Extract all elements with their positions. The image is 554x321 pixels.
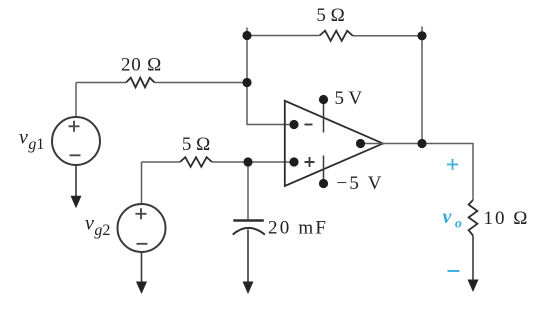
wire: vg1 top lead: [75, 83, 77, 118]
wire: feedback top left segment: [247, 35, 320, 37]
node: plus-input / capacitor junction: [243, 157, 252, 166]
wire: op-amp output: [361, 144, 474, 201]
vg1 plus sign: [69, 121, 80, 132]
op-amp +5V supply pin line: [323, 101, 325, 133]
wire: 5 ohm (lower) right segment to plus input: [212, 161, 294, 163]
ground arrow below vg1: [71, 196, 82, 208]
pin dot: noninverting input: [289, 157, 298, 166]
svg-text:−5 V: −5 V: [337, 173, 384, 194]
pin dot: op-amp output: [356, 139, 365, 148]
vo minus polarity mark (cyan): [448, 270, 460, 272]
source vg2 circle: [118, 204, 166, 252]
wire: capacitor top lead: [247, 162, 249, 220]
wire: 10 ohm bottom lead: [472, 236, 474, 282]
wire: capacitor bottom lead: [247, 230, 249, 284]
resistor 5 ohm (lower) zigzag: [180, 157, 212, 167]
resistor R_f 5ohm zigzag: [320, 31, 353, 41]
vg1 minus sign: [70, 154, 81, 156]
wire: vg1 bottom lead: [75, 165, 77, 197]
wire: feedback top right segment: [353, 35, 422, 37]
pin dot: inverting input: [289, 120, 298, 129]
wire: right vertical feedback: [421, 27, 423, 144]
wire: vg2 top lead: [141, 162, 143, 204]
ground arrow below capacitor: [243, 282, 254, 295]
op-amp U1 triangle: [285, 101, 383, 186]
node: 20 ohm / inverting column junction: [242, 78, 251, 87]
resistor 10 ohm vertical zigzag: [469, 200, 478, 236]
capacitor C 20mF bottom curved plate: [233, 228, 265, 235]
svg-text:vg1: vg1: [19, 127, 44, 154]
resistor 20 ohm zigzag: [126, 78, 155, 88]
op-amp plus sign (noninverting input marker): [305, 157, 315, 167]
svg-text:vo: vo: [443, 206, 462, 232]
svg-text:5 Ω: 5 Ω: [182, 134, 210, 155]
op-amp minus sign (inverting input marker): [305, 124, 313, 126]
wire: vg2 bottom lead: [141, 252, 143, 283]
svg-text:20 Ω: 20 Ω: [121, 55, 162, 76]
vo plus polarity mark (cyan): [447, 159, 458, 170]
wire: 5 ohm (lower) left segment: [142, 161, 181, 163]
node: top-left feedback junction: [242, 31, 251, 40]
vg2 minus sign: [137, 243, 148, 245]
pin dot: +5V supply: [319, 95, 328, 104]
source vg1 circle: [52, 117, 100, 165]
ground arrow below 10 ohm: [468, 280, 479, 293]
wire: 20 ohm input wire left segment: [76, 82, 126, 84]
svg-text:10 Ω: 10 Ω: [484, 208, 530, 229]
svg-text:vg2: vg2: [85, 213, 110, 240]
svg-text:5 V: 5 V: [335, 88, 363, 109]
wire: 20 ohm input wire right segment: [155, 82, 248, 84]
vg2 plus sign: [136, 208, 147, 219]
node: top-right feedback junction: [417, 31, 426, 40]
capacitor C 20mF top plate: [233, 219, 263, 221]
op-amp -5V supply pin line: [323, 156, 325, 183]
node: output / feedback junction: [417, 139, 426, 148]
svg-text:20 mF: 20 mF: [268, 218, 328, 239]
wire: left vertical node column (top node to inverting input): [247, 28, 294, 125]
svg-text:5 Ω: 5 Ω: [316, 5, 344, 26]
pin dot: -5V supply: [319, 179, 328, 188]
ground arrow below vg2: [136, 282, 147, 295]
